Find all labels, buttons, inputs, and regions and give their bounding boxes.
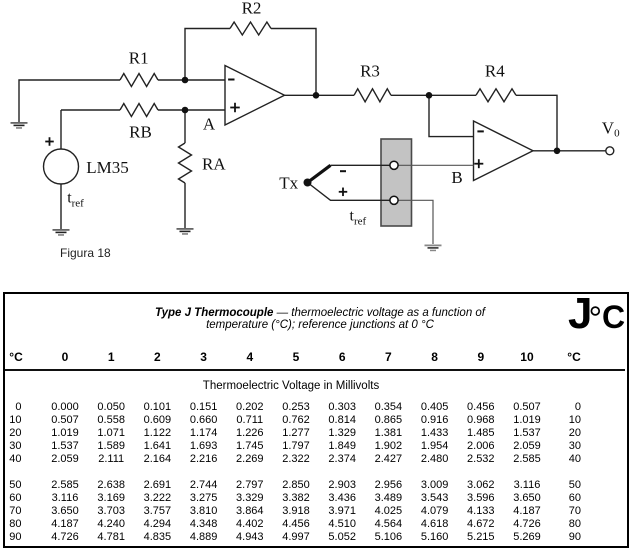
svg-text:R1: R1: [129, 49, 149, 68]
svg-text:R4: R4: [485, 61, 505, 80]
svg-text:LM35: LM35: [86, 158, 129, 177]
svg-text:R2: R2: [242, 0, 262, 18]
svg-text:A: A: [203, 114, 216, 133]
svg-text:Tx: Tx: [279, 173, 298, 192]
svg-text:RB: RB: [129, 123, 152, 142]
svg-text:tref: tref: [350, 208, 367, 228]
svg-text:tref: tref: [67, 190, 84, 210]
svg-text:R3: R3: [360, 61, 380, 80]
svg-text:B: B: [451, 168, 462, 187]
svg-text:RA: RA: [202, 155, 226, 174]
svg-text:V0: V0: [602, 118, 620, 139]
